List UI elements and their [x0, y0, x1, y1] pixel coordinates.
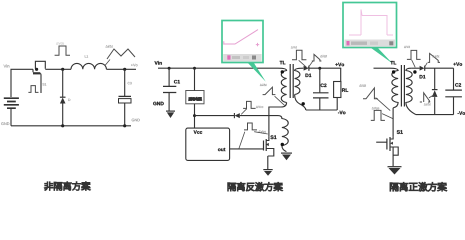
- wire output bottom rail: [416, 114, 454, 116]
- transistor S1 (buck switch): [33, 61, 46, 93]
- waveform gate pulse: [28, 86, 38, 93]
- ground C1: [166, 111, 175, 118]
- transistor S1 (forward switch): [376, 108, 403, 167]
- label L1: [85, 55, 88, 57]
- label delta-i: [106, 45, 113, 48]
- wire switch node: [45, 68, 71, 70]
- battery B1: [4, 98, 19, 108]
- pointer aux-diode pulse: [241, 109, 247, 115]
- diode D (freewheel): [60, 97, 70, 126]
- wire Vin top rail: [11, 69, 33, 97]
- waveform D1 current ramp: [312, 54, 322, 61]
- wire inductor to +Vo: [106, 68, 136, 70]
- waveform primary current ramp: [363, 88, 378, 99]
- transformer secondary winding: [406, 68, 416, 114]
- waveform freewheel ramp: [420, 93, 430, 102]
- wire output bottom rail: [306, 109, 337, 111]
- label Vin: [155, 61, 162, 65]
- pointer gate pulse: [239, 132, 245, 149]
- label grey D1 pulse: [291, 46, 297, 48]
- pointer sawtooth to inductor: [105, 60, 110, 66]
- diode D1 (forward rectifier): [420, 66, 454, 79]
- transformer TL label: [280, 61, 286, 64]
- pointer D1 pulse: [412, 60, 416, 68]
- transformer core: [290, 64, 293, 98]
- transformer primary winding: [278, 68, 287, 102]
- label grey gate pulse: [372, 107, 379, 110]
- label grey switch-node pulse: [56, 42, 64, 45]
- node C1 tap: [168, 67, 171, 70]
- startup resistor box: [186, 91, 204, 104]
- transformer core: [401, 65, 404, 107]
- label grey gate pulse: [258, 130, 265, 133]
- waveform ripple sawtooth: [107, 49, 135, 59]
- pointer primary ramp: [275, 96, 285, 105]
- node C2 tap: [318, 67, 321, 70]
- waveform primary current ramp: [263, 87, 276, 94]
- label grey aux-diode pulse: [256, 106, 263, 108]
- pointer primary ramp: [376, 98, 391, 111]
- pointer D1 ramp: [308, 61, 313, 68]
- pointer gate pulse: [382, 114, 393, 119]
- caption 非隔离方案: [44, 182, 90, 191]
- node primary phase dot: [281, 70, 284, 73]
- waveform D1 voltage pulse: [407, 50, 421, 59]
- node aux phase dot: [281, 143, 284, 146]
- node startup tap: [193, 67, 196, 70]
- wire battery to bottom rail: [10, 108, 12, 126]
- inductor L1: [71, 63, 106, 69]
- pointer freewheel ramp: [429, 95, 434, 98]
- capacitor C1: [163, 68, 180, 110]
- capacitor C3 (output electrolytic): [119, 69, 132, 126]
- transformer aux winding: [278, 116, 288, 152]
- label grey D1 ramp: [320, 55, 327, 57]
- ground S1: [263, 170, 272, 176]
- label -Vo: [458, 111, 465, 114]
- label grey primary ramp: [260, 84, 267, 86]
- capacitor C2: [445, 68, 462, 114]
- node Vcc junction: [193, 114, 196, 117]
- waveform gate pulse: [244, 123, 257, 130]
- ground S1: [388, 167, 402, 175]
- controller IC U1: [186, 128, 230, 160]
- wire secondary top: [412, 67, 420, 69]
- label -Vo: [338, 111, 346, 114]
- label grey D1 ramp: [433, 55, 440, 57]
- ground aux winding: [281, 153, 292, 160]
- transistor S1 (flyback switch): [264, 135, 277, 169]
- waveform aux-diode pulse: [243, 101, 256, 108]
- wire out to gate: [230, 148, 264, 150]
- wire input rail: [158, 67, 278, 69]
- label grey primary ramp: [359, 84, 366, 86]
- label +Vo: [131, 64, 138, 67]
- resistor RL: [334, 68, 349, 110]
- scope callout (forward drain voltage): [343, 3, 397, 64]
- wire input stub: [374, 67, 390, 69]
- node diode bottom: [61, 124, 64, 127]
- node secondary phase dot: [302, 102, 305, 105]
- diode aux rectifier: [234, 113, 278, 118]
- transformer primary winding: [390, 68, 399, 108]
- label GND: [153, 102, 164, 105]
- waveform D1 voltage pulse: [292, 50, 306, 60]
- waveform gate pulse: [371, 110, 385, 120]
- node C3 bottom: [123, 124, 126, 127]
- pointer D1 ramp: [424, 63, 427, 68]
- wire aux rail: [195, 115, 235, 117]
- wire diode branch: [62, 69, 64, 97]
- capacitor C2: [313, 68, 329, 110]
- node primary phase dot: [392, 70, 395, 73]
- caption 隔离反激方案: [228, 182, 283, 191]
- wire bottom rail: [11, 125, 131, 127]
- transformer secondary winding: [295, 68, 306, 110]
- label GND right: [132, 119, 140, 122]
- label grey D1 pulse: [404, 46, 410, 48]
- transformer TL label: [391, 61, 397, 64]
- label Vin: [4, 65, 10, 68]
- waveform D1 current ramp: [428, 53, 440, 62]
- node output top: [123, 68, 126, 71]
- diode D1 (output rectifier): [304, 66, 342, 77]
- node secondary phase dot: [413, 70, 416, 73]
- wire drain to primary: [269, 103, 287, 137]
- wire startup box leads: [194, 68, 196, 128]
- label grey freewheel ramp: [424, 103, 431, 105]
- diode D2 (freewheel): [432, 68, 438, 114]
- node switch-diode junction: [61, 68, 64, 71]
- waveform switch-node pulse: [55, 46, 70, 55]
- pointer D1 pulse: [299, 60, 307, 67]
- caption 隔离正激方案: [390, 182, 447, 191]
- label +Vo: [335, 63, 344, 66]
- label +Vo: [453, 62, 462, 65]
- scope callout (flyback primary current): [222, 21, 266, 82]
- label GND left: [1, 122, 9, 125]
